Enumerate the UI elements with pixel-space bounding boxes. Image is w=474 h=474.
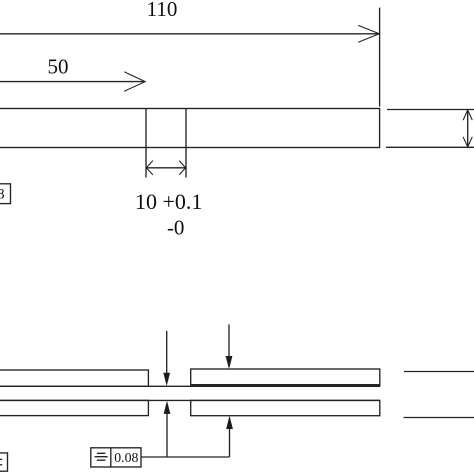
arrow down to middle plate top [166,331,168,374]
solid arrowhead up at lower right block bottom [226,416,233,429]
solid arrowhead down at middle plate [163,373,170,386]
svg-text:0.08: 0.08 [114,450,138,465]
svg-text:10 +0.1: 10 +0.1 [135,189,202,214]
plate front view (bar with slot) [0,109,380,148]
feature control frame clipped (top left) [0,184,11,204]
arrowhead 50 (open) [124,72,145,91]
dimension line 110 [0,33,379,35]
thickness dimension line [467,110,469,148]
arrow up shaft from middle plate bottom [166,413,168,457]
symmetry tolerance frame [91,448,141,467]
svg-text:0.08: 0.08 [0,187,5,203]
right side view bottom edge (bottom figure) [404,417,474,419]
slot right edge + extension [185,109,187,178]
extension line at x=380 [379,8,381,107]
symmetry symbol [95,453,108,460]
frame divider [110,448,112,467]
side view bottom edge (top figure) [386,146,474,148]
thickness arrowhead up (open) [463,110,472,120]
svg-text:-0: -0 [167,216,185,240]
arrowhead 110 (open) [358,25,379,42]
thickness arrowhead down (open) [463,137,472,147]
arrow up shaft from lower right block bottom [229,428,231,457]
svg-text:110: 110 [147,0,178,21]
right side view top edge (bottom figure) [404,371,474,373]
solid arrowhead up at middle plate bottom [164,401,171,414]
upper left block [0,370,148,386]
dimension line 50 [0,81,145,83]
datum edge thick line [191,384,380,387]
middle plate (bottom figure) [0,386,380,400]
slot dim arrowhead right (open) [179,161,185,175]
upper right block [191,369,380,386]
clipped frame (bottom left) [0,453,8,471]
text group [0,0,202,465]
svg-text:50: 50 [48,55,69,79]
lower right block [191,400,380,415]
slot left edge + extension [145,109,147,178]
slot width dimension line [146,167,186,169]
slot dim arrowhead left (open) [146,161,152,175]
lower left block [0,400,148,415]
leader line to tolerance frame [141,456,230,458]
clipped symmetry symbol [0,459,2,464]
arrow down to upper right block top [228,324,230,356]
solid arrowhead down at upper right block [226,356,233,369]
side view top edge (top figure) [387,109,474,111]
